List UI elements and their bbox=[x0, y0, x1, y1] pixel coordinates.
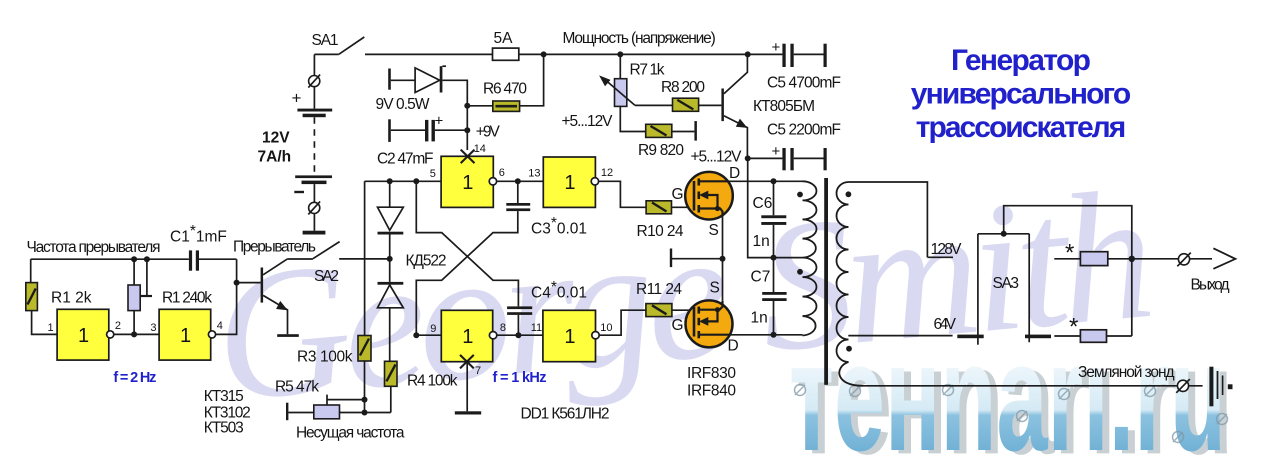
svg-text:R3 100k: R3 100k bbox=[297, 348, 353, 365]
svg-text:трассоискателя: трассоискателя bbox=[916, 111, 1127, 144]
wire battery negative bbox=[313, 184, 315, 202]
wire bottom left to R5 bbox=[288, 412, 313, 414]
svg-text:1: 1 bbox=[564, 172, 575, 194]
svg-text:13: 13 bbox=[528, 168, 540, 180]
node output junction bbox=[1129, 256, 1135, 262]
svg-text:R8 200: R8 200 bbox=[661, 79, 705, 96]
wire C2 left bbox=[391, 129, 425, 131]
svg-text:S: S bbox=[709, 222, 719, 239]
svg-text:3: 3 bbox=[150, 322, 156, 334]
wire between diodes bbox=[389, 235, 391, 282]
resistor R11 24 bbox=[646, 304, 672, 317]
resistor R6 470 bbox=[493, 101, 520, 111]
connector circle on battery plus wire bbox=[308, 75, 320, 88]
wire diode chain top bbox=[389, 181, 391, 207]
svg-text:1: 1 bbox=[564, 326, 575, 348]
resistor R8 200 bbox=[673, 98, 699, 111]
ground pin7 bbox=[455, 411, 481, 414]
wire VT3 source down bbox=[722, 216, 724, 301]
logic gate DD1.2 bbox=[159, 309, 215, 360]
svg-text:f = 1 kHz: f = 1 kHz bbox=[493, 370, 547, 386]
resistor R1 2k bbox=[26, 283, 38, 311]
logic gate DD1.3 bbox=[441, 156, 496, 207]
svg-text:+9V: +9V bbox=[476, 124, 501, 141]
wire 64V tap bbox=[848, 335, 952, 337]
svg-text:КД522: КД522 bbox=[406, 253, 447, 270]
svg-text:5A: 5A bbox=[494, 30, 514, 47]
potentiometer R5 47k body bbox=[314, 405, 340, 419]
terminal bar source stub bbox=[670, 249, 672, 268]
svg-text:IRF830: IRF830 bbox=[687, 365, 736, 382]
node base branch bbox=[234, 280, 240, 286]
node C3 top bbox=[515, 178, 521, 184]
svg-text:R4 100k: R4 100k bbox=[407, 372, 458, 389]
wire battery dashed middle bbox=[313, 117, 315, 175]
wire R9 right to terminal bbox=[672, 131, 695, 133]
svg-text:Мощность (напряжение): Мощность (напряжение) bbox=[563, 30, 716, 47]
svg-text:9: 9 bbox=[430, 323, 436, 335]
node pin9 bbox=[413, 332, 419, 338]
wire C6 branch bbox=[773, 181, 775, 257]
wire zener cathode to node bbox=[442, 80, 467, 106]
label battery minus bbox=[294, 191, 304, 193]
node drain C6 bbox=[771, 178, 777, 184]
svg-text:G: G bbox=[672, 186, 684, 203]
connector circle output bbox=[1177, 253, 1191, 267]
capacitor C3 0.01 plates bbox=[506, 203, 530, 211]
secondary polarity dot top bbox=[846, 191, 852, 197]
wire output bbox=[1132, 258, 1212, 260]
node center tap C6 C7 bbox=[771, 255, 777, 261]
wire R3 bottom bbox=[364, 361, 366, 413]
svg-text:1: 1 bbox=[78, 325, 89, 347]
transformer T1 primary winding bbox=[803, 181, 817, 335]
svg-text:R9 820: R9 820 bbox=[638, 142, 684, 159]
svg-text:+: + bbox=[292, 89, 302, 108]
svg-text:C7: C7 bbox=[751, 269, 771, 286]
trimmer wiper tap bbox=[140, 259, 152, 296]
wire to battery terminal bar bbox=[313, 214, 315, 231]
wire C5 2200 right bbox=[794, 157, 824, 159]
node KT805 emitter +5..12V bbox=[745, 155, 751, 161]
svg-text:+5...12V: +5...12V bbox=[691, 149, 743, 166]
capacitor C1 1mF plates bbox=[189, 250, 199, 270]
svg-text:C5 4700mF: C5 4700mF bbox=[767, 74, 841, 91]
wire lower jumper bbox=[1054, 335, 1132, 337]
svg-text:10: 10 bbox=[600, 322, 612, 334]
svg-text:+: + bbox=[772, 143, 781, 160]
node SA3 top bbox=[1001, 231, 1007, 237]
svg-text:R6 470: R6 470 bbox=[483, 81, 527, 98]
wire to Q1 base bbox=[237, 282, 261, 284]
wire feedback riser bbox=[133, 259, 135, 334]
node R3 bottom line bbox=[362, 410, 368, 416]
node sources stub bbox=[720, 256, 726, 262]
svg-text:R7 1k: R7 1k bbox=[630, 62, 665, 79]
watermark slashed-circle marks bbox=[795, 385, 1228, 443]
svg-text:G: G bbox=[672, 317, 684, 334]
wire pin5 chain to C4 bbox=[416, 181, 518, 306]
svg-text:+5...12V: +5...12V bbox=[562, 113, 614, 130]
svg-text:IRF840: IRF840 bbox=[687, 382, 736, 399]
svg-text:1: 1 bbox=[180, 325, 191, 347]
wire R7 from rail bbox=[619, 54, 621, 78]
svg-text:1: 1 bbox=[48, 322, 54, 334]
capacitor C2 47mF plates bbox=[425, 120, 435, 141]
node top wire pot left bbox=[131, 256, 137, 262]
watermark George Smith bbox=[207, 151, 1162, 441]
ground VT1 emitter bbox=[277, 334, 299, 337]
svg-text:12: 12 bbox=[601, 167, 613, 179]
svg-text:*: * bbox=[1065, 240, 1074, 267]
fuse FU1 5A bbox=[493, 48, 519, 60]
logic gate DD1.4 bbox=[543, 157, 598, 207]
node zener-R6 bbox=[464, 103, 470, 109]
wire C7 branch bbox=[773, 258, 775, 335]
svg-text:*: * bbox=[1069, 314, 1078, 341]
svg-text:SA3: SA3 bbox=[993, 275, 1020, 292]
transistor VT4 internals bbox=[694, 301, 730, 339]
svg-text:Земляной зонд: Земляной зонд bbox=[1078, 364, 1175, 381]
terminal bar C5 4700 bbox=[824, 44, 827, 67]
svg-text:+: + bbox=[772, 39, 781, 56]
watermark tehnari.ru main bbox=[789, 310, 1226, 460]
svg-text:7: 7 bbox=[475, 365, 481, 377]
svg-text:1n: 1n bbox=[753, 233, 770, 250]
wire upper jumper bbox=[1054, 258, 1132, 260]
node C2 +9V bbox=[464, 127, 470, 133]
wire R4 bottom corner bbox=[390, 386, 392, 412]
primary polarity dot top bbox=[797, 192, 803, 198]
wire pin7 to ground bbox=[466, 362, 468, 412]
capacitor C5 2200mF bbox=[782, 148, 793, 170]
node drain C7 bbox=[771, 332, 777, 338]
svg-text:SA1: SA1 bbox=[312, 32, 339, 49]
switch SA3 poles bbox=[978, 234, 1029, 345]
wire emitter node to C5 2200 bbox=[748, 157, 783, 159]
svg-text:12V: 12V bbox=[262, 130, 290, 147]
transistor VT3 IRF830 body bbox=[685, 172, 733, 220]
wire R7 bottom to R9 bbox=[620, 106, 645, 131]
node rail-R6 bbox=[541, 51, 547, 57]
wire pin10 to R11 bbox=[599, 310, 646, 335]
node pin5 diode line bbox=[387, 178, 393, 184]
terminal bar R9 bbox=[694, 121, 697, 141]
wire VD2 to R4 bbox=[389, 308, 391, 362]
wire R11 to gate bbox=[672, 309, 694, 311]
wire C4 to pin8 node bbox=[517, 315, 519, 335]
diode VD1 KD522 bbox=[378, 207, 404, 234]
resistor R9 820 bbox=[646, 124, 672, 137]
terminal bar C5 2200 bbox=[824, 148, 827, 170]
battery terminal bar bbox=[303, 231, 326, 235]
pin7 cross mark bbox=[460, 355, 474, 369]
svg-text:C5 2200mF: C5 2200mF bbox=[767, 122, 841, 139]
svg-text:DD1 К561ЛН2: DD1 К561ЛН2 bbox=[521, 405, 610, 422]
wire gate1 out to gate2 in bbox=[114, 333, 159, 335]
potentiometer trimmer body on feedback bbox=[128, 285, 140, 311]
wire SA3 to output node bbox=[1004, 206, 1132, 336]
wire astable pin5 input bbox=[365, 180, 442, 182]
node pin5 feedback line bbox=[413, 178, 419, 184]
zener VD 9V terminal bar bbox=[388, 69, 391, 90]
switch SA1 bbox=[314, 37, 364, 54]
node diodes SA2 bbox=[387, 256, 393, 262]
svg-text:14: 14 bbox=[474, 143, 486, 155]
wire VT4 drain to transformer bbox=[730, 334, 803, 336]
title Generator universalnogo trassoiskatelya bbox=[911, 44, 1131, 144]
svg-text:универсального: универсального bbox=[911, 77, 1131, 110]
svg-text:КТ503: КТ503 bbox=[204, 420, 244, 437]
wire R3 riser bbox=[364, 181, 366, 335]
pin14 cross mark bbox=[461, 150, 475, 164]
svg-text:Выход: Выход bbox=[1191, 276, 1230, 293]
wire +9V node down to gate pin14 bbox=[466, 106, 468, 150]
svg-text:1n: 1n bbox=[751, 309, 768, 326]
node C4 bottom bbox=[515, 332, 521, 338]
svg-text:f = 2 Hz: f = 2 Hz bbox=[113, 370, 156, 386]
node rail-R7 bbox=[617, 51, 623, 57]
transformer core bbox=[824, 178, 828, 385]
potentiometer R7 1k body bbox=[615, 79, 627, 107]
svg-text:4: 4 bbox=[217, 320, 223, 332]
capacitor C7 1n plates bbox=[762, 292, 786, 301]
svg-text:R1 240k: R1 240k bbox=[162, 289, 212, 306]
arrow output bbox=[1213, 248, 1235, 268]
primary polarity dot bottom bbox=[797, 269, 803, 275]
svg-text:D: D bbox=[729, 165, 740, 182]
connector circle on battery minus wire bbox=[308, 201, 320, 214]
resistor R3 100k bbox=[358, 336, 371, 362]
svg-text:Частота прерывателя: Частота прерывателя bbox=[27, 239, 161, 256]
svg-text:1: 1 bbox=[462, 326, 473, 348]
wire gate3 out to gate4 bbox=[497, 180, 544, 182]
svg-text:Несущая частота: Несущая частота bbox=[296, 425, 405, 442]
wire secondary top to 128V contact bbox=[849, 182, 928, 257]
capacitor C6 1n plates bbox=[761, 215, 786, 225]
switch SA2 bbox=[287, 242, 339, 259]
node feedback pot bottom bbox=[131, 331, 137, 337]
wire gate2 out riser to C1 bbox=[216, 259, 237, 334]
resistor R4 100k bbox=[385, 361, 398, 386]
svg-text:C6: C6 bbox=[753, 195, 773, 212]
wire source stub bbox=[671, 258, 723, 260]
logic gate DD1.1 bbox=[57, 309, 114, 360]
transistor VT2 KT805 bbox=[721, 54, 747, 158]
logic gate DD1.6 bbox=[543, 310, 599, 361]
ground probe electrode bbox=[1209, 367, 1232, 407]
svg-text:КТ315: КТ315 bbox=[204, 388, 244, 405]
wire VT3 drain to transformer bbox=[728, 180, 803, 182]
diode VD2 KD522 bbox=[378, 282, 404, 308]
wire R7 wiper to R8 bbox=[635, 104, 673, 106]
wire gate5 out to gate6 bbox=[497, 334, 543, 336]
resistor R10 24 bbox=[646, 201, 671, 214]
svg-text:1: 1 bbox=[462, 172, 473, 194]
wire R6 right up to rail bbox=[520, 54, 544, 105]
svg-text:9V 0.5W: 9V 0.5W bbox=[376, 96, 430, 113]
svg-text:S: S bbox=[710, 280, 720, 297]
svg-text:КТ805БМ: КТ805БМ bbox=[753, 98, 815, 115]
wire SA2 to diode node bbox=[339, 258, 390, 260]
wire pin9 input bbox=[416, 334, 441, 336]
jumper box lower bbox=[1080, 330, 1106, 343]
wire R6 left bbox=[467, 105, 493, 107]
potentiometer R7 arrow bbox=[599, 75, 635, 105]
svg-text:R1 2k: R1 2k bbox=[51, 289, 92, 306]
svg-text:7A/h: 7A/h bbox=[258, 149, 292, 166]
wire left oscillator top bbox=[31, 258, 237, 260]
wire secondary bottom to ground probe bbox=[863, 385, 1203, 387]
node top wire pot wiper bbox=[144, 256, 150, 262]
wire C5 4700 right bbox=[794, 53, 824, 55]
switch SA3 contact bar right bbox=[1025, 335, 1051, 339]
pin number labels bbox=[48, 143, 614, 377]
svg-text:D: D bbox=[728, 338, 739, 355]
svg-text:+: + bbox=[435, 113, 444, 130]
svg-text:6: 6 bbox=[499, 167, 505, 179]
svg-text:Прерыватель: Прерыватель bbox=[233, 239, 316, 256]
capacitor C5 4700mF bbox=[782, 44, 793, 67]
wire supply to transformer center tap bbox=[748, 158, 803, 257]
battery GB1 bottom cell bbox=[295, 175, 332, 184]
wire zener anode bbox=[391, 79, 415, 81]
jumper box upper bbox=[1080, 252, 1107, 266]
svg-text:64V: 64V bbox=[934, 316, 957, 333]
wire C3 chain to pin9 bbox=[416, 181, 518, 335]
logic gate DD1.5 bbox=[441, 310, 497, 361]
svg-text:2: 2 bbox=[115, 320, 121, 332]
wire left drop to R1 2k bbox=[30, 259, 32, 282]
svg-text:C2 47mF: C2 47mF bbox=[377, 151, 434, 168]
wire top rail from SA1 to C5 bbox=[365, 53, 782, 55]
capacitor C2 terminal bar bbox=[388, 119, 391, 142]
connector circle ground probe bbox=[1176, 379, 1190, 393]
battery GB1 12V top cell bbox=[297, 109, 332, 118]
svg-text:SA2: SA2 bbox=[314, 268, 339, 285]
switch SA3 contact bar 64V bbox=[957, 335, 983, 339]
svg-text:128V: 128V bbox=[931, 241, 963, 258]
wire R5 to R4 bottom bbox=[340, 412, 391, 414]
svg-text:5: 5 bbox=[430, 168, 436, 180]
wire pin12 to R10 bbox=[599, 181, 647, 207]
wire C2 right to node bbox=[435, 129, 467, 131]
terminal bar R5 left bbox=[286, 403, 288, 421]
svg-text:8: 8 bbox=[500, 322, 506, 334]
svg-text:Генератор: Генератор bbox=[951, 44, 1091, 77]
watermark tehnari.ru shadow bbox=[796, 313, 1233, 460]
transistor VT1 bbox=[261, 259, 288, 334]
wire battery positive to SA1 bbox=[313, 54, 315, 75]
wire R8 right to base bbox=[699, 104, 722, 106]
wire R10 to gate bbox=[672, 206, 695, 208]
zener diode VD 9V 0.5W bbox=[415, 66, 446, 92]
svg-text:R10 24: R10 24 bbox=[637, 223, 684, 240]
wire R5 wiper link bbox=[327, 395, 365, 405]
transistor VT3 internals bbox=[694, 179, 728, 216]
wire R1 2k to gate pin1 bbox=[32, 311, 57, 335]
svg-text:R5 47k: R5 47k bbox=[275, 378, 319, 395]
node rail-KT805 collector bbox=[745, 51, 751, 57]
transformer secondary winding bbox=[837, 182, 863, 386]
contact stub 128V bbox=[927, 256, 953, 258]
wire circle to battery bbox=[313, 87, 315, 109]
node R3 wiper bbox=[362, 397, 368, 403]
svg-text:11: 11 bbox=[531, 322, 542, 334]
capacitor C4 0.01 plates bbox=[507, 306, 532, 315]
secondary polarity dot bottom bbox=[846, 346, 852, 352]
transistor VT4 IRF840 body bbox=[686, 300, 733, 347]
gate unity labels bbox=[78, 172, 576, 348]
svg-text:R11 24: R11 24 bbox=[636, 281, 682, 298]
